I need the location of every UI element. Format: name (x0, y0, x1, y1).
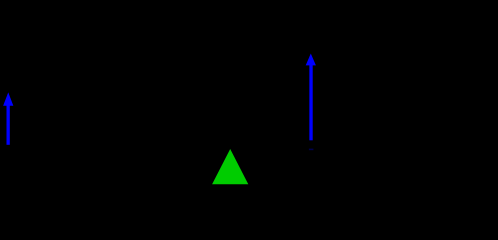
arrow F2 shaft (309, 64, 312, 140)
arrow F2 tail remnant below beam (309, 149, 314, 151)
fulcrum (green triangle) (212, 149, 248, 184)
force arrow F2 (center-right, blue, upward) (306, 54, 316, 151)
arrow F1 head (3, 92, 13, 105)
beam (black, invisible on black background) (0, 145, 498, 150)
arrow F2 head (306, 54, 316, 66)
force arrow F1 (left, blue, upward) (3, 92, 13, 144)
arrow F1 shaft (7, 105, 10, 145)
